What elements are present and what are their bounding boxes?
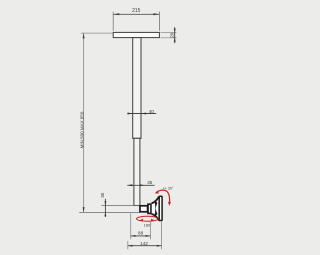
dim 30 arrow bottom bbox=[104, 213, 106, 217]
dim 35 line bbox=[127, 184, 154, 186]
dim 35 arrow right bbox=[140, 184, 145, 186]
tilt arc arrow upper bbox=[155, 191, 159, 194]
pole inner tube bbox=[134, 138, 140, 205]
dim 20 extension line top bbox=[161, 32, 177, 34]
arm bottom extension line bbox=[79, 211, 140, 213]
head arm bbox=[140, 206, 148, 212]
svg-text:215: 215 bbox=[132, 8, 141, 14]
head bell top edge bbox=[152, 197, 159, 204]
dim 215 extension line right bbox=[158, 12, 160, 31]
dim 30 arrow top bbox=[104, 201, 106, 205]
head bell central bowtie bbox=[154, 200, 157, 217]
dim 20 arrow bottom bbox=[174, 38, 176, 42]
svg-text:+/- 30°: +/- 30° bbox=[163, 187, 174, 191]
svg-text:30: 30 bbox=[100, 192, 105, 198]
dim 215 arrow left bbox=[113, 13, 119, 15]
head collar bbox=[148, 204, 151, 213]
pole outer tube bbox=[133, 38, 141, 139]
dim 215 line bbox=[113, 13, 159, 15]
tilt arc arrow lower bbox=[168, 202, 171, 206]
height dim arrow bottom bbox=[83, 207, 85, 212]
dim 20 line bbox=[174, 27, 176, 43]
svg-text:142: 142 bbox=[140, 241, 148, 246]
dim 20 arrow top bbox=[174, 29, 176, 33]
svg-text:88: 88 bbox=[138, 231, 144, 236]
dim 88 extension line right bbox=[149, 221, 151, 239]
dim 88 arrow left bbox=[131, 235, 136, 237]
tilt arc red bbox=[156, 190, 169, 202]
dim 88 extension line left bbox=[130, 213, 132, 239]
svg-text:MIN.500 MAX.850: MIN.500 MAX.850 bbox=[79, 111, 84, 148]
swivel arrow right bbox=[151, 219, 155, 222]
dim 35 arrow left bbox=[127, 184, 132, 186]
head bell bottom edge bbox=[152, 214, 159, 220]
dim 215 arrow right bbox=[153, 13, 159, 15]
dim 20 extension line bottom bbox=[161, 37, 177, 39]
dim 88 line bbox=[131, 235, 151, 237]
dim 142 arrow left bbox=[128, 245, 133, 247]
dim 215 extension line left bbox=[112, 12, 114, 31]
dim 88 arrow right bbox=[146, 235, 151, 237]
ceiling plate bbox=[113, 32, 159, 37]
height dim extension line top (plate top) bbox=[81, 32, 113, 34]
swivel ellipse red bbox=[137, 216, 159, 221]
head bell white body bbox=[152, 197, 159, 221]
height dim arrow top bbox=[83, 33, 85, 38]
dim 40 line bbox=[127, 113, 156, 115]
head mounting plate bbox=[159, 196, 162, 220]
dim 142 line bbox=[128, 245, 162, 247]
svg-text:20: 20 bbox=[169, 32, 174, 38]
dim 30 line bbox=[104, 199, 106, 217]
dim 142 extension line right bbox=[161, 221, 163, 249]
svg-text:40: 40 bbox=[149, 109, 155, 114]
svg-text:35: 35 bbox=[147, 180, 153, 185]
dim 142 extension line left bbox=[127, 241, 129, 249]
dim 142 arrow right bbox=[157, 245, 162, 247]
swivel arrow left bbox=[139, 219, 143, 222]
dim 40 arrow right bbox=[141, 113, 146, 115]
arm top extension line bbox=[102, 205, 140, 207]
dim 40 arrow left bbox=[128, 113, 133, 115]
height dim line MIN.500 MAX.850 bbox=[83, 33, 85, 212]
